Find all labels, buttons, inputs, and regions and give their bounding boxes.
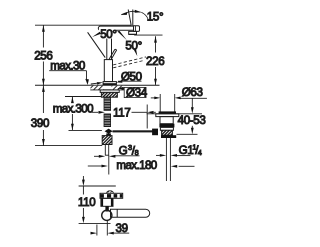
top extension line (256) merging into spout top — [35, 24, 131, 26]
256/390 dimension line — [42, 25, 44, 145]
svg-text:4: 4 — [198, 148, 202, 157]
256 top arrowhead — [42, 25, 45, 31]
mounting nut — [101, 92, 117, 97]
max.300 dimension line — [71, 97, 73, 131]
50deg-2 arrow — [134, 49, 138, 56]
pop-up rod to drain — [113, 130, 157, 132]
neck left line — [106, 30, 108, 59]
svg-text:15°: 15° — [147, 10, 163, 23]
deck line at drain — [147, 113, 203, 115]
256 bottom arrowhead — [42, 79, 45, 85]
rod joint lower stub — [106, 133, 111, 136]
15deg arc right arrowhead — [135, 10, 142, 13]
rod extension line left (max.300 bottom) — [69, 129, 102, 131]
svg-text:110: 110 — [78, 196, 95, 209]
spout tube — [98, 26, 133, 30]
117 extension line — [146, 105, 148, 129]
svg-text:Ø63: Ø63 — [182, 86, 203, 99]
117 dimension line right — [132, 111, 148, 113]
50deg-1 left arrow — [92, 32, 100, 37]
diameter 50 left arrow — [91, 82, 98, 85]
leader curve to 15deg text — [141, 12, 148, 19]
deck bottom line — [90, 89, 124, 91]
390 bottom arrowhead — [42, 139, 45, 145]
max.180 right arrowhead — [171, 165, 177, 168]
svg-text:G1: G1 — [179, 144, 194, 157]
svg-text:8: 8 — [135, 148, 139, 157]
svg-text:226: 226 — [146, 55, 164, 68]
hose coupling block — [102, 136, 112, 145]
390 bottom extension line — [35, 145, 102, 147]
110 bottom arrowhead — [82, 217, 85, 223]
deck hatching left — [91, 86, 104, 90]
G1 1/4 underline — [177, 155, 191, 157]
deck hatching right — [112, 86, 125, 90]
drain flange — [156, 114, 179, 117]
neck right line — [111, 30, 113, 59]
226 top extension line — [134, 34, 162, 36]
handle vertical line — [132, 10, 134, 27]
max.300 bottom arrowhead — [71, 124, 74, 130]
detail ball joint — [102, 210, 112, 220]
detail neck dark — [105, 206, 108, 211]
detail top extension line — [79, 185, 116, 187]
dashed swivel spout line B — [113, 60, 144, 68]
390 top arrowhead — [42, 86, 45, 92]
nut-bottom extension line (max.300 top) — [65, 96, 101, 98]
lever stub at rest (small tube) — [109, 49, 115, 60]
svg-text:39: 39 — [116, 222, 128, 235]
drain plug side lines — [159, 94, 161, 112]
rod side port — [152, 129, 158, 136]
drain plug base dark band — [159, 111, 176, 113]
40-53 bottom extension line — [177, 133, 198, 135]
svg-text:max.300: max.300 — [53, 102, 93, 115]
base dark bottom — [103, 83, 116, 85]
pop-up rod joint on shank — [105, 129, 113, 134]
drain locknut dark band — [159, 124, 174, 128]
threaded shank lower — [104, 114, 111, 127]
svg-text:Ø50: Ø50 — [121, 70, 142, 83]
detail lever bar — [111, 209, 150, 217]
svg-text:50°: 50° — [100, 28, 116, 41]
faucet column — [104, 60, 112, 82]
39 extension lines — [96, 225, 98, 236]
detail cap marks — [108, 191, 112, 192]
dashed swivel spout line A — [113, 57, 146, 65]
G1 1/4 arrows — [156, 154, 160, 156]
117 right arrowhead outside — [147, 111, 153, 114]
detail knob bar — [100, 193, 123, 198]
diameter 50 underline with arrow — [118, 80, 142, 82]
lever stick up-left — [88, 32, 106, 57]
226 bottom arrowhead — [154, 79, 157, 85]
aerator — [129, 31, 137, 34]
svg-text:117: 117 — [113, 106, 130, 119]
50deg-1 right arrow — [117, 31, 127, 40]
drain hex nut — [162, 130, 173, 135]
svg-text:390: 390 — [31, 117, 49, 130]
deck top line — [35, 84, 160, 86]
knob knurl dark segments — [101, 194, 104, 198]
faucet axis extension line — [108, 155, 110, 174]
threaded shank upper — [104, 97, 111, 110]
svg-text:256: 256 — [34, 50, 52, 63]
226 top arrowhead — [154, 36, 157, 42]
117 dimension left arrow — [92, 111, 99, 113]
drain nut bottom bar — [161, 135, 176, 138]
detail stem dark edges — [101, 198, 103, 206]
diameter 34 leader arrow — [117, 87, 123, 90]
G3/8 underline — [115, 155, 140, 157]
svg-text:G: G — [119, 145, 128, 158]
diameter 63 left arrow — [151, 97, 155, 99]
lever inner line — [116, 209, 118, 217]
svg-text:Ø34: Ø34 — [126, 86, 148, 99]
39 dimension arrows — [91, 232, 93, 234]
G3/8 tail pipe — [105, 145, 108, 156]
diameter 63 right arrow — [175, 97, 181, 100]
spout end piece — [134, 26, 140, 32]
50deg label 1 background — [99, 28, 115, 39]
diameter 34 box — [124, 87, 146, 97]
110 dimension line — [82, 176, 84, 217]
spout end inner line — [134, 26, 136, 32]
226 dimension line — [155, 36, 157, 85]
diameter 63 underline — [180, 97, 207, 99]
svg-text:max.180: max.180 — [116, 159, 156, 172]
110 top arrowhead — [82, 180, 85, 186]
drain tailpipe — [165, 138, 167, 181]
base flange — [103, 82, 116, 85]
detail bottom extension line — [79, 222, 111, 224]
max.300 top arrowhead — [71, 97, 74, 103]
G3/8 arrows — [94, 155, 99, 157]
washer — [100, 90, 119, 93]
svg-text:50°: 50° — [125, 39, 141, 52]
svg-text:40-53: 40-53 — [178, 114, 206, 127]
max.30 underline — [49, 70, 86, 72]
detail screw cap — [107, 191, 114, 194]
drain mid band — [160, 127, 173, 130]
40-53 dimension — [191, 98, 193, 107]
drain body — [160, 117, 173, 124]
15deg arc — [121, 11, 140, 14]
handle tilted 15deg line — [128, 10, 131, 26]
15deg arc left arrowhead — [121, 12, 128, 15]
max.30 leader — [86, 71, 88, 80]
max.180 dimension line left — [88, 165, 102, 167]
detail stem — [101, 198, 113, 206]
